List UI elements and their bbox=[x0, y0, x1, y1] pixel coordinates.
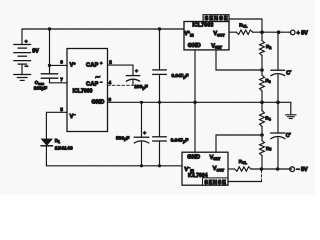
capacitor Cosc 100pF bbox=[41, 73, 57, 75]
node junction VOUT/SENSE bbox=[260, 30, 264, 34]
node junction R3/R4 on GND rail bbox=[260, 101, 264, 105]
diode D1 1N4148 bbox=[41, 139, 52, 145]
capacitor C1 100uF bbox=[126, 75, 139, 77]
terminal +5V bbox=[290, 30, 295, 35]
node junction top rail / V+ branch bbox=[48, 27, 51, 30]
SENSE tab U2 bbox=[203, 15, 229, 22]
svg-text:C′: C′ bbox=[286, 70, 292, 76]
node junction C' branch top bbox=[277, 30, 281, 34]
wire U3 SENSE to output node bbox=[228, 181, 262, 183]
svg-text:100μF: 100μF bbox=[134, 84, 148, 90]
svg-text:ICL7664: ICL7664 bbox=[188, 173, 208, 179]
svg-text:+ 5V: + 5V bbox=[297, 30, 309, 36]
IC U1 ICL7660 voltage converter box bbox=[67, 49, 108, 132]
SENSE tab U3 bbox=[203, 178, 229, 185]
svg-text:1N4148: 1N4148 bbox=[55, 145, 73, 150]
svg-text:0.047μF: 0.047μF bbox=[172, 73, 189, 79]
svg-text:+: + bbox=[143, 131, 146, 136]
wire to ground symbol bbox=[278, 102, 291, 115]
svg-text:+: + bbox=[135, 69, 138, 74]
wire U2 VOUT to RCL bbox=[229, 31, 236, 33]
svg-text:−: − bbox=[25, 64, 28, 70]
node junction GND rail / ground bbox=[276, 101, 280, 105]
svg-text:0.047μF: 0.047μF bbox=[171, 138, 189, 144]
resistor RCL (top) bbox=[236, 30, 253, 34]
svg-text:500μF: 500μF bbox=[116, 135, 129, 141]
svg-text:SENSE: SENSE bbox=[205, 16, 229, 22]
resistor R3 bbox=[260, 75, 265, 91]
node junction R2/R3 VSET bbox=[260, 68, 264, 72]
svg-text:GND: GND bbox=[187, 154, 200, 160]
wire pin 2 to C1 bbox=[108, 65, 134, 75]
wire pin 5 to D1 bbox=[46, 112, 67, 139]
svg-text:9V: 9V bbox=[32, 48, 39, 54]
ground (right) bbox=[286, 115, 296, 119]
terminal -5V bbox=[290, 167, 295, 172]
node junction pin8 tee bbox=[48, 64, 51, 67]
resistor R5 bbox=[260, 141, 265, 156]
capacitor C' top bbox=[277, 32, 279, 70]
svg-text:100pF: 100pF bbox=[34, 85, 47, 90]
wire pin 4 dashed to C1 bottom bbox=[108, 84, 134, 86]
capacitor C2 0.047uF top bbox=[159, 29, 161, 70]
wire U2 SENSE to output node bbox=[229, 19, 262, 32]
wire VSET U2 bbox=[216, 51, 262, 70]
resistor R4 bbox=[261, 102, 263, 110]
resistor RCL (bottom) bbox=[235, 167, 252, 171]
IC U2 ICL7663 positive regulator box bbox=[184, 22, 229, 50]
svg-text:+: + bbox=[25, 39, 28, 44]
svg-text:C′: C′ bbox=[286, 133, 292, 139]
capacitor C4 500uF bbox=[141, 102, 143, 137]
node junction GND rail bbox=[193, 101, 196, 104]
wire to pin 7 bbox=[50, 82, 68, 84]
IC U3 ICL7664 negative regulator box bbox=[182, 152, 228, 185]
wire GND rail bbox=[108, 101, 278, 103]
node dots C4 bbox=[140, 101, 143, 104]
battery 9V bbox=[14, 45, 31, 65]
wire VSET U3 bbox=[216, 135, 262, 152]
svg-text:GND: GND bbox=[92, 100, 105, 106]
wire D1 to bottom rail, bottom rail to ICL7664 VIN bbox=[46, 146, 182, 166]
svg-text:SENSE: SENSE bbox=[204, 180, 226, 186]
svg-text:GND: GND bbox=[188, 43, 201, 49]
node junction C' branch bottom bbox=[276, 167, 280, 171]
capacitor C5 0.047uF bottom bbox=[159, 102, 161, 137]
capacitor C' bottom bbox=[277, 102, 279, 133]
wire RCL to +5V terminal bbox=[253, 31, 291, 33]
wire to pin 8 bbox=[50, 64, 68, 66]
node junction R4/R5 VSET bbox=[260, 133, 264, 137]
wire V+ branch down bbox=[49, 29, 51, 73]
node junction VOUT/SENSE bottom bbox=[260, 167, 264, 171]
wire RCL to -5V terminal bbox=[251, 168, 292, 170]
wire GND pin U2 down to rail and U3 bbox=[194, 51, 196, 153]
ground (battery) bbox=[14, 75, 31, 81]
svg-text:ICL7660: ICL7660 bbox=[73, 88, 93, 94]
svg-text:− 5V: − 5V bbox=[296, 167, 308, 173]
wire top rail from battery to ICL7663 VIN bbox=[22, 29, 183, 45]
wire battery to ground bbox=[21, 64, 23, 74]
wire U3 VOUT to RCL bbox=[228, 168, 235, 170]
svg-text:ICL7663: ICL7663 bbox=[192, 23, 213, 29]
resistor R2 bbox=[261, 32, 263, 40]
